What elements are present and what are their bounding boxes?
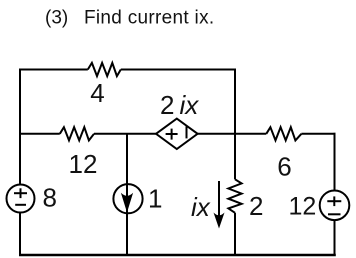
svg-text:8: 8 <box>43 182 57 212</box>
wire middle from diamond to node B branch <box>198 133 267 135</box>
title text "(3) Find current ix." <box>45 8 214 29</box>
svg-text:2: 2 <box>160 90 174 120</box>
voltage source V2 12V circle <box>320 191 350 221</box>
wire middle right segment to right edge <box>301 133 335 135</box>
svg-text:4: 4 <box>90 78 104 108</box>
wire left vertical <box>19 69 21 256</box>
current arrow ix with label <box>191 181 225 229</box>
svg-text:ix: ix <box>191 192 211 222</box>
svg-text:(3): (3) <box>45 8 68 29</box>
wire current-source branch vertical (x=127) <box>126 134 128 255</box>
resistor R 6ohm (middle-right) <box>266 127 301 140</box>
label 2 ix <box>160 90 199 120</box>
current source I1 1A circle with down arrow <box>113 184 142 213</box>
wire middle horizontal left segment <box>19 133 60 135</box>
svg-text:2: 2 <box>249 191 263 221</box>
plus sign inside diamond <box>166 129 178 140</box>
svg-text:1: 1 <box>148 184 162 214</box>
svg-text:Find current ix.: Find current ix. <box>84 8 214 29</box>
svg-text:ix: ix <box>180 90 200 120</box>
wire bottom horizontal <box>19 254 336 257</box>
wire branch vertical at node B (x=235) top segment <box>234 69 236 180</box>
svg-text:12: 12 <box>289 193 317 221</box>
wire top horizontal left segment <box>19 69 88 71</box>
resistor R 12ohm (middle-left) <box>60 127 94 140</box>
svg-text:6: 6 <box>277 151 291 181</box>
voltage source V1 8V circle <box>7 185 35 213</box>
wire below resistor 2 to bottom <box>234 213 236 255</box>
wire middle horizontal to dependent source <box>94 133 156 135</box>
minus bar inside diamond <box>186 126 188 138</box>
dependent source U1 diamond 2ix <box>156 119 198 149</box>
wire right vertical (x=334.5) <box>334 133 336 255</box>
wire top horizontal right segment <box>121 69 236 71</box>
resistor R 2ohm (vertical) <box>228 179 241 213</box>
resistor R 4ohm (top) <box>88 63 121 76</box>
svg-text:12: 12 <box>69 149 98 179</box>
